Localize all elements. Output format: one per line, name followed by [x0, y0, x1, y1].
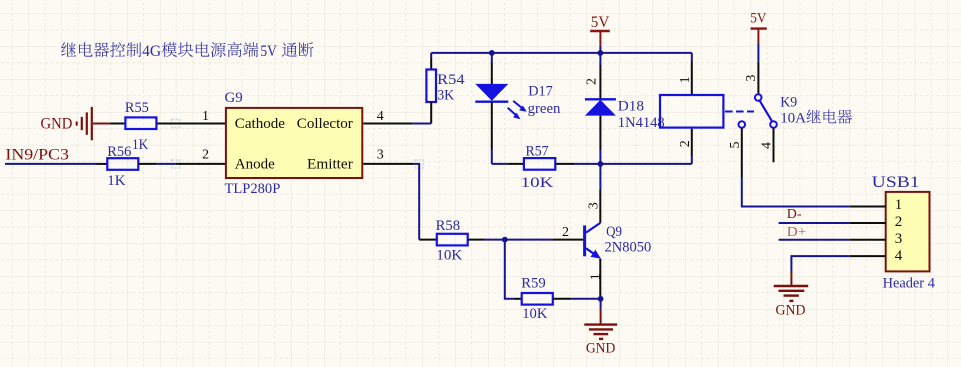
svg-text:3: 3: [377, 147, 384, 162]
optocoupler G9: [202, 90, 384, 197]
resistor R57: [508, 143, 601, 191]
svg-text:D-: D-: [787, 207, 802, 222]
svg-text:Anode: Anode: [235, 156, 275, 172]
wire D-: [779, 222, 850, 224]
svg-text:Collector: Collector: [297, 116, 353, 132]
svg-text:10K: 10K: [522, 306, 547, 322]
svg-text:Emitter: Emitter: [307, 156, 353, 172]
svg-text:D17: D17: [528, 84, 553, 100]
wire top rail: [431, 52, 692, 54]
svg-text:1: 1: [589, 273, 604, 280]
svg-text:1: 1: [678, 76, 693, 83]
wire R55 to G9 pin 1: [157, 123, 226, 125]
header USB1: [850, 174, 936, 291]
wire D17 to R57: [492, 163, 508, 165]
relay K9 value label: [780, 109, 852, 126]
svg-text:R58: R58: [436, 218, 461, 234]
svg-text:R59: R59: [521, 275, 546, 291]
wire USB1 pin 4 to GND: [791, 256, 849, 272]
title text: [61, 42, 313, 60]
wire R56 to G9 pin 2: [157, 163, 176, 165]
svg-text:TLP280P: TLP280P: [225, 181, 281, 197]
resistor R58: [419, 218, 505, 263]
svg-text:10K: 10K: [521, 175, 554, 191]
svg-text:IN9/PC3: IN9/PC3: [5, 146, 68, 163]
svg-text:GND: GND: [586, 340, 616, 356]
wire junction to Q9 base: [505, 239, 553, 241]
svg-text:GND: GND: [41, 116, 73, 133]
power port GND (center): [584, 299, 617, 357]
power port 5V (center): [590, 14, 610, 53]
wire relay pin 5 to USB1 pin 1: [742, 177, 850, 207]
wire IN9/PC3 to R56: [5, 163, 97, 165]
wire junction to Q9 collector: [599, 164, 601, 190]
svg-text:Header 4: Header 4: [883, 276, 936, 292]
svg-text:10A: 10A: [780, 111, 806, 127]
svg-text:GND: GND: [776, 302, 806, 318]
wire junction to relay pin 2: [600, 163, 691, 165]
svg-text:Q9: Q9: [606, 224, 622, 240]
svg-text:5V: 5V: [260, 43, 277, 60]
svg-text:K9: K9: [780, 95, 797, 111]
svg-text:R55: R55: [125, 100, 149, 116]
svg-text:3: 3: [587, 202, 602, 209]
junction: [598, 296, 604, 302]
power port 5V (right): [750, 10, 766, 61]
power port GND (USB): [774, 272, 809, 319]
svg-text:Cathode: Cathode: [235, 116, 286, 132]
svg-text:USB1: USB1: [872, 174, 920, 191]
relay K9: [660, 53, 797, 177]
junction: [489, 50, 495, 56]
svg-text:3: 3: [744, 75, 759, 82]
svg-text:4: 4: [377, 109, 384, 124]
resistor R59: [514, 275, 601, 322]
junction marker: [172, 120, 424, 168]
svg-text:2: 2: [585, 78, 600, 85]
LED D17: [475, 53, 561, 164]
svg-text:5: 5: [728, 142, 743, 149]
svg-text:4: 4: [760, 142, 775, 149]
svg-text:2: 2: [202, 147, 209, 162]
junction: [598, 161, 604, 167]
svg-text:D+: D+: [787, 225, 807, 240]
transistor Q9: [552, 223, 651, 299]
svg-text:G9: G9: [225, 90, 243, 106]
svg-text:2: 2: [895, 214, 903, 230]
svg-text:1K: 1K: [107, 173, 125, 189]
resistor R55: [125, 100, 156, 153]
junction: [598, 50, 604, 56]
svg-text:5V: 5V: [750, 10, 766, 26]
junction: [502, 237, 508, 243]
svg-text:4G: 4G: [142, 43, 161, 60]
svg-text:2N8050: 2N8050: [605, 240, 652, 256]
diode D18: [585, 53, 665, 164]
wire GND to R55: [110, 123, 125, 125]
svg-text:1N4148: 1N4148: [618, 115, 665, 131]
wire G9 pin 4 to R54: [363, 123, 412, 125]
svg-text:10K: 10K: [436, 248, 462, 264]
svg-text:D18: D18: [618, 98, 644, 114]
svg-text:green: green: [528, 101, 561, 117]
wire D+: [779, 239, 850, 241]
svg-text:2: 2: [678, 140, 693, 147]
svg-text:4: 4: [895, 248, 903, 264]
wire junction down to R59: [505, 240, 514, 299]
svg-text:5V: 5V: [591, 14, 610, 31]
svg-text:R54: R54: [437, 72, 465, 88]
svg-text:R57: R57: [526, 143, 550, 159]
resistor R54: [426, 53, 465, 124]
power port GND (left): [41, 107, 111, 140]
svg-text:R56: R56: [107, 144, 132, 160]
svg-text:1K: 1K: [132, 137, 148, 153]
svg-text:3: 3: [895, 231, 903, 247]
svg-text:2: 2: [562, 225, 569, 240]
svg-text:3K: 3K: [437, 88, 454, 104]
wire G9 pin 3 down to R58: [363, 163, 414, 165]
resistor R56: [97, 144, 157, 189]
svg-text:1: 1: [202, 109, 209, 124]
svg-text:1: 1: [895, 197, 903, 213]
